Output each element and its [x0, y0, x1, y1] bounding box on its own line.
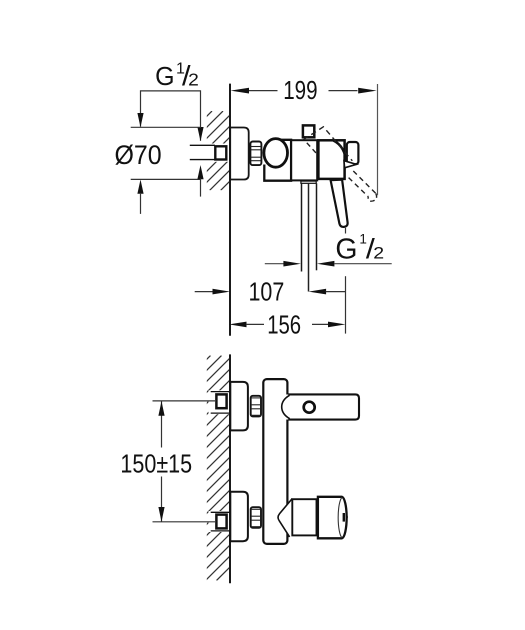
150±15 dimension line: [161, 401, 163, 447]
upper escutcheon: [230, 382, 248, 431]
arrowhead 199 left: [231, 88, 250, 94]
svg-text:150±15: 150±15: [120, 451, 192, 479]
arrowhead 107 at pipe centre: [309, 289, 327, 295]
aerator axis bump: [346, 514, 348, 520]
G 1/2 pipe dimension line left: [265, 263, 284, 265]
arrowhead 150±15 up: [158, 401, 164, 416]
outlet cone: [278, 498, 292, 537]
dimension line 199: [249, 90, 358, 92]
aerator face inner ellipse edge: [338, 497, 342, 537]
label 156: [267, 310, 301, 339]
outlet pipe lines: [301, 183, 303, 271]
arrowhead 150±15 down: [158, 507, 164, 522]
dashed inner leg: [307, 143, 316, 153]
lever beak: [344, 161, 356, 168]
G 1/2 top leader bracket: [141, 91, 201, 141]
dimension 107 right line: [326, 291, 345, 293]
top arm: [285, 395, 359, 420]
svg-text:G: G: [155, 63, 174, 92]
arrowhead 199 right: [358, 88, 377, 94]
upper union flange lines: [211, 391, 230, 393]
dashed lever alternate position: chevron over knob: [303, 127, 352, 161]
arrowhead bracket right down: [197, 127, 203, 141]
156 right extension line: [345, 228, 347, 234]
upper hex nut: [251, 396, 261, 417]
solid lever handle (closed position): [331, 180, 348, 227]
mixer body (vertical bar): [263, 379, 287, 544]
arrowhead pipe-stub up: [197, 165, 203, 179]
label 150±15: [120, 451, 192, 479]
G 1/2 pipe dimension line right: [334, 263, 392, 265]
ball joint: [264, 139, 288, 168]
199 right extension line: [377, 84, 379, 195]
outlet collar under body: [301, 181, 316, 183]
arrowhead 107 at wall: [213, 289, 231, 295]
wall hatching (top view): [133, 111, 300, 190]
arrowhead Ø70 lower-left up: [137, 180, 143, 194]
svg-text:199: 199: [283, 76, 317, 105]
lower union flange lines: [211, 511, 230, 513]
svg-text:156: 156: [267, 310, 301, 339]
svg-text:G: G: [335, 233, 357, 265]
lower escutcheon: [230, 492, 248, 541]
small square knob on top: [303, 125, 314, 137]
aerator knob: [318, 497, 347, 539]
dashed lever up-position outline: [353, 171, 376, 193]
outlet pipe centre line: [308, 183, 310, 291]
wall hatching (bottom view): [0, 356, 442, 581]
arrowhead pipe dim left-pointing: [317, 261, 335, 267]
square union fitting at wall: [215, 146, 226, 159]
dimension 156 line: [246, 323, 264, 325]
lever back curve over housing: [333, 141, 347, 166]
arm left cap arc: [282, 395, 290, 418]
arrowhead pipe dim right-pointing: [283, 261, 301, 267]
G 1/2 top label: [155, 60, 199, 91]
white gap for inlet pipe through hatching: [190, 144, 229, 162]
150±15 extension lines: [153, 400, 216, 402]
Ø70 dimension extension lines: [131, 126, 201, 128]
valve body block: [264, 140, 291, 181]
G 1/2 pipe label: [335, 232, 384, 266]
right end cap: [347, 142, 359, 164]
hex nut: [250, 142, 261, 166]
svg-text:2: 2: [373, 243, 384, 262]
arrowhead 156 right: [328, 322, 346, 328]
wall line (top view): [229, 84, 231, 336]
svg-text:Ø70: Ø70: [115, 139, 162, 170]
lower square union: [216, 515, 226, 529]
escutcheon flange on wall: [230, 128, 249, 180]
lower hex nut: [251, 507, 261, 528]
dimension 107 left line: [195, 291, 214, 293]
label 107: [249, 278, 285, 307]
inlet pipe stub: [190, 144, 215, 146]
svg-text:2: 2: [188, 69, 199, 89]
upper square union: [216, 394, 226, 408]
outlet body: [292, 499, 316, 535]
white gaps for the two wall unions: [209, 390, 230, 414]
aerator screw slot: [343, 513, 345, 522]
label 199: [283, 76, 317, 105]
wall line (bottom view): [229, 354, 231, 583]
arrowhead bracket left down: [137, 113, 143, 127]
label Ø70: [115, 139, 162, 170]
centre section of body: [291, 140, 317, 180]
arrowhead 156 left: [229, 322, 247, 328]
arm hole: [304, 402, 315, 413]
lever housing: [318, 140, 344, 179]
svg-text:107: 107: [249, 278, 285, 307]
